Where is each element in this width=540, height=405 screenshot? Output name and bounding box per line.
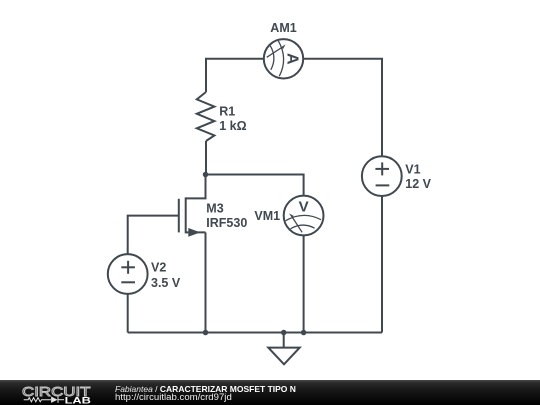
svg-text:V: V (299, 198, 309, 215)
svg-text:LAB: LAB (65, 395, 91, 405)
footer line 2 (115, 393, 232, 403)
wire V2 bottom to bottom rail (127, 294, 129, 333)
svg-text:12 V: 12 V (405, 177, 431, 191)
V2 label (151, 261, 181, 290)
svg-text:3.5 V: 3.5 V (151, 276, 181, 290)
node junction dots (203, 172, 307, 336)
wire top-right from AM1 right terminal to V1 top (303, 59, 382, 156)
ground (268, 333, 299, 365)
footer line 1 (115, 385, 296, 394)
node ground junction (281, 330, 287, 336)
svg-text:VM1: VM1 (254, 209, 280, 223)
voltage source V1 (362, 156, 402, 196)
wire V1 bottom to bottom rail (381, 196, 383, 333)
wire MOSFET source to bottom rail (205, 232, 207, 332)
node source-rail junction (203, 330, 209, 336)
transistor M3 (NMOS) (179, 175, 206, 234)
svg-text:A: A (283, 53, 300, 65)
svg-text:R1: R1 (219, 104, 235, 118)
svg-text:IRF530: IRF530 (206, 216, 247, 230)
svg-text:1 kΩ: 1 kΩ (219, 119, 246, 133)
V1 label (405, 163, 431, 191)
svg-text:AM1: AM1 (270, 21, 296, 35)
svg-text:V2: V2 (151, 261, 166, 275)
svg-text:V1: V1 (405, 163, 420, 177)
voltage source V2 (108, 254, 148, 294)
R1 value label (219, 104, 246, 132)
CircuitLab logo (20, 381, 98, 405)
wire bottom rail (128, 332, 382, 334)
node drain junction (203, 172, 209, 178)
ammeter AM1 (264, 39, 303, 78)
footer bar (0, 380, 540, 405)
voltmeter VM1 (284, 196, 324, 236)
M3 label (206, 202, 247, 230)
M3 source arrow (188, 228, 200, 237)
svg-text:M3: M3 (206, 202, 223, 216)
wire top-left from R1 top to AM1 left terminal (206, 59, 264, 92)
node VM1-rail junction (301, 330, 307, 336)
wire V2 top to MOSFET gate (128, 216, 179, 255)
wire junction to VM1 top (206, 175, 304, 196)
resistor R1 (197, 92, 215, 141)
wire VM1 bottom to bottom rail (303, 235, 305, 332)
wire R1 bottom to drain junction (205, 141, 207, 175)
